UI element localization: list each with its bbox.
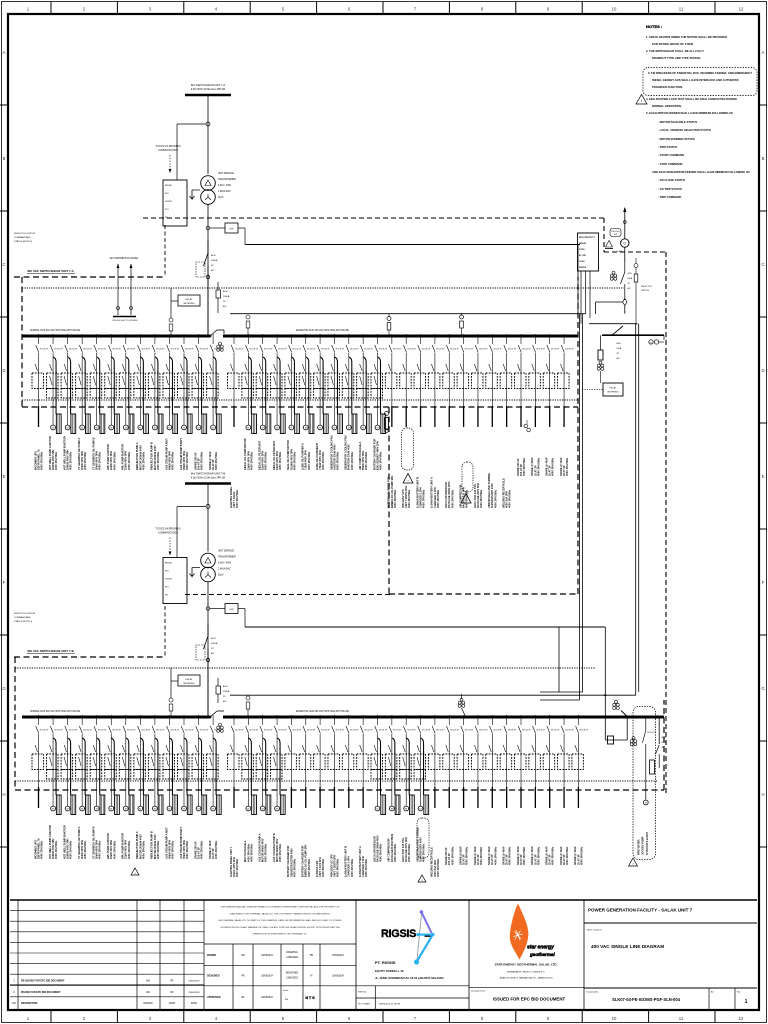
switchgear 7-B label [27, 649, 75, 654]
svg-text:MCCB 3P: MCCB 3P [264, 349, 273, 351]
feeder N2 MCCB upper normal bus [47, 334, 64, 434]
svg-text:M: M [405, 809, 407, 811]
svg-text:400V 3PH 50Hz: 400V 3PH 50Hz [508, 489, 512, 508]
svg-text:MCCB 3P: MCCB 3P [350, 349, 359, 351]
feeder E9 MCCB upper essential bus [342, 334, 359, 434]
PT fuse on essential incomer wire [387, 314, 391, 335]
svg-text:MCCB 3P: MCCB 3P [336, 730, 345, 732]
feeder N10 MCCB upper normal bus [163, 334, 180, 434]
bus1 right stub and transfer tie [589, 324, 664, 340]
feeder LE17 MCCB lower essential bus [457, 715, 474, 808]
svg-text:RELAY: RELAY [186, 678, 193, 681]
feeder LE22 label [530, 846, 540, 865]
svg-text:A/C: A/C [211, 269, 215, 272]
svg-text:400V 3PH 50Hz: 400V 3PH 50Hz [127, 840, 131, 859]
svg-text:MCCB 3P: MCCB 3P [278, 349, 287, 351]
svg-text:M: M [391, 809, 393, 811]
feeder E6 label [301, 443, 311, 470]
feeder N6 MCCB upper normal bus [105, 334, 122, 434]
svg-text:STATUS (NOTE 5): STATUS (NOTE 5) [14, 620, 33, 623]
svg-text:MCCB 3P: MCCB 3P [185, 730, 194, 732]
svg-text:400V 3PH 50Hz: 400V 3PH 50Hz [493, 489, 497, 508]
svg-text:COMMAND AND: COMMAND AND [14, 236, 31, 239]
feeder N5 label [92, 437, 102, 470]
svg-text:A: A [3, 50, 6, 55]
note triangle below lower labels 1 [131, 868, 139, 875]
svg-text:M: M [362, 428, 364, 430]
transformer protection relay box 7-B [163, 558, 187, 604]
svg-text:MCCB 3P: MCCB 3P [293, 730, 302, 732]
svg-text:1600A: 1600A [211, 642, 218, 645]
svg-text:PN: PN [310, 954, 314, 957]
svg-text:86T: 86T [165, 571, 169, 573]
svg-text:M: M [81, 428, 83, 430]
svg-text:TO DCS VIA PROFIBUS: TO DCS VIA PROFIBUS [155, 528, 181, 531]
svg-text:6kV SWITCHGEAR UNIT 7-A: 6kV SWITCHGEAR UNIT 7-A [191, 83, 226, 87]
svg-text:400V 3PH 50Hz: 400V 3PH 50Hz [170, 840, 174, 859]
feeder LN3 MCCB lower normal bus [61, 715, 78, 815]
feeder N1 label [33, 449, 43, 470]
feeder LE3 MCCB lower essential bus [256, 715, 273, 815]
bus tie breaker 7-B [209, 711, 224, 718]
svg-text:MCCB 3P: MCCB 3P [407, 349, 416, 351]
feeder LE24 MCCB lower essential bus [558, 715, 575, 808]
feeder LE20 MCCB lower essential bus [500, 715, 517, 808]
svg-text:RELAY: RELAY [165, 184, 173, 187]
fire water jockey pump feeder [629, 707, 657, 867]
svg-text:400V 3PH 50Hz: 400V 3PH 50Hz [479, 489, 483, 508]
svg-text:400V 3PH 50Hz: 400V 3PH 50Hz [422, 489, 426, 508]
svg-text:400V 3PH 50Hz: 400V 3PH 50Hz [565, 457, 569, 476]
svg-text:COMMAND AND: COMMAND AND [14, 616, 31, 619]
essential incomer wire upper [230, 245, 586, 314]
notes text block [636, 24, 757, 199]
EDG protection relay box [578, 233, 599, 271]
svg-text:10: 10 [612, 1016, 617, 1021]
svg-text:COMMUNICATION: COMMUNICATION [158, 532, 178, 535]
svg-text:400V 3PH 50Hz: 400V 3PH 50Hz [69, 451, 73, 470]
feeder E13 MCCB upper essential bus [400, 334, 417, 427]
svg-text:Sheet Contents: Sheet Contents [587, 929, 603, 932]
svg-text:A/C: A/C [223, 305, 227, 308]
svg-text:400 VAC SWITCHGEAR UNIT 7-A: 400 VAC SWITCHGEAR UNIT 7-A [27, 269, 75, 273]
svg-text:RIGSIS: RIGSIS [381, 928, 416, 940]
svg-text:4. EDG ROUTINE LOAD TEST SHALL: 4. EDG ROUTINE LOAD TEST SHALL BE ABLE C… [646, 97, 737, 101]
svg-text:400V 3PH 50Hz: 400V 3PH 50Hz [379, 451, 383, 470]
svg-text:MCCB 3P: MCCB 3P [98, 349, 107, 351]
svg-text:A/C: A/C [617, 357, 621, 360]
feeder LN10 label [164, 827, 174, 859]
svg-text:ACB: ACB [223, 290, 228, 293]
svg-text:DRAWING: DRAWING [286, 951, 298, 954]
feeder E21 MCCB upper essential bus [515, 334, 532, 427]
svg-text:D: D [2, 368, 5, 373]
feeder E7 label [315, 443, 325, 470]
feeder E22 MCCB upper essential bus [529, 334, 546, 427]
svg-text:M: M [262, 809, 264, 811]
feeder E2 MCCB upper essential bus [242, 334, 259, 434]
svg-text:H: H [2, 792, 5, 797]
svg-text:WISMA BARITO PACIFIC II LANTAI: WISMA BARITO PACIFIC II LANTAI 9 'D' [507, 971, 545, 974]
svg-text:MCCB 3P: MCCB 3P [156, 349, 165, 351]
svg-text:TO DCS VIA PROFIBUS: TO DCS VIA PROFIBUS [155, 145, 181, 148]
svg-text:Dyn5: Dyn5 [218, 575, 224, 577]
feeder N9 label [150, 442, 160, 470]
svg-text:ISSUED FOR EPC BID DOCUMENT: ISSUED FOR EPC BID DOCUMENT [493, 997, 566, 1002]
svg-text:400V 3PH 50Hz: 400V 3PH 50Hz [112, 840, 116, 859]
svg-text:PT. RIGSIS: PT. RIGSIS [375, 960, 396, 965]
dashed DCS communication line upper [143, 217, 604, 219]
essential feed wires right [624, 306, 626, 314]
svg-text:Dyn5: Dyn5 [218, 197, 224, 199]
svg-text:09/28/2024 10:13 PM: 09/28/2024 10:13 PM [379, 1004, 400, 1006]
feeder E20 MCCB upper essential bus [500, 334, 517, 427]
feeder LN9 MCCB lower normal bus [148, 715, 165, 815]
svg-text:M: M [247, 428, 249, 430]
svg-text:400V 3PH 50Hz: 400V 3PH 50Hz [83, 451, 87, 470]
svg-text:400V 3PH 50Hz: 400V 3PH 50Hz [335, 451, 339, 470]
feeder E12 label [387, 476, 397, 508]
svg-text:STATUS (NOTE 5): STATUS (NOTE 5) [14, 240, 33, 243]
svg-text:M: M [212, 809, 214, 811]
feeder LE6 label [301, 845, 311, 877]
feeder LE13 label [401, 837, 411, 862]
svg-text:SWITCH: SWITCH [641, 290, 649, 292]
svg-text:ACB: ACB [617, 342, 622, 345]
feeder LE19 label [487, 846, 497, 865]
svg-text:RELAY: RELAY [610, 387, 617, 390]
wire to transformer protection relay [177, 124, 206, 180]
svg-text:M: M [110, 428, 112, 430]
svg-text:MCCB 3P: MCCB 3P [307, 349, 316, 351]
svg-text:400V 3PH 50Hz: 400V 3PH 50Hz [141, 451, 145, 470]
svg-text:ESSENTIAL BUS 400 VAC 50Hz: ESSENTIAL BUS 400 VAC 50Hz 50kA 3PH 3W+P… [296, 710, 349, 713]
svg-text:400V 3PH 50Hz: 400V 3PH 50Hz [350, 858, 354, 877]
svg-text:M: M [110, 809, 112, 811]
svg-text:29/08/2024: 29/08/2024 [261, 976, 273, 978]
feeder LE12 label [387, 833, 397, 862]
dashed DCS communication line lower [185, 594, 391, 596]
svg-text:27/59: 27/59 [579, 249, 585, 251]
EDG relay wires down [581, 271, 590, 324]
feeder LE4 MCCB lower essential bus [271, 715, 288, 815]
feeder LE12 MCCB lower essential bus [385, 715, 402, 815]
feeder N1 MCCB upper normal bus [32, 334, 49, 427]
svg-text:3. TIE BREAKERS OF ESSENTIAL B: 3. TIE BREAKERS OF ESSENTIAL BUS, INCOMI… [648, 71, 752, 75]
svg-text:6.3kV / 400V: 6.3kV / 400V [218, 185, 232, 187]
feeder LE20 label [501, 846, 511, 865]
svg-text:M: M [67, 809, 69, 811]
dotted boundary bottom lower [15, 780, 658, 782]
svg-text:400V 3PH 50Hz: 400V 3PH 50Hz [493, 846, 497, 865]
svg-text:M: M [154, 809, 156, 811]
svg-text:400V 3PH 50Hz: 400V 3PH 50Hz [156, 451, 160, 470]
EDG drawout symbol [610, 271, 617, 280]
svg-text:MCCB 3P: MCCB 3P [508, 349, 517, 351]
svg-text:6.3kV 50Hz 31.5kA 2sec 3PH: 6.3kV 50Hz 31.5kA 2sec 3PH 3W [191, 477, 226, 480]
svg-text:C: C [2, 262, 5, 267]
svg-text:- MOTOR AVAILABLE STATUS: - MOTOR AVAILABLE STATUS [658, 120, 697, 124]
svg-text:A: A [762, 50, 765, 55]
svg-text:A/C: A/C [211, 652, 215, 655]
feeder N7 label [121, 444, 131, 470]
transformer protection relay box 7-A [163, 180, 187, 226]
EDG outgoing wire [621, 247, 625, 300]
feeder LE23 label [545, 846, 555, 865]
relay metering box upper [171, 288, 200, 318]
feeder LE2 label [243, 840, 253, 862]
feeder LE15 label [430, 847, 440, 877]
normal bus 7-A [22, 329, 210, 336]
feeder E23 label [545, 457, 555, 476]
svg-text:MCCB 3P: MCCB 3P [565, 730, 574, 732]
svg-text:MCCB 3P: MCCB 3P [142, 730, 151, 732]
svg-text:M: M [198, 809, 200, 811]
node on incoming wire lower [206, 607, 210, 611]
svg-text:400V 3PH 50Hz: 400V 3PH 50Hz [278, 451, 282, 470]
svg-text:400V 3PH 50Hz: 400V 3PH 50Hz [278, 843, 282, 862]
svg-text:M: M [377, 809, 379, 811]
node on incoming wire upper [206, 226, 210, 230]
svg-text:TRANSFER FUNCTION.: TRANSFER FUNCTION. [652, 85, 683, 89]
svg-text:MCCB 3P: MCCB 3P [565, 349, 574, 351]
feeder N5 MCCB upper normal bus [90, 334, 107, 434]
feeder LN12 label [193, 840, 203, 859]
svg-text:M: M [305, 428, 307, 430]
svg-text:400V 3PH 50Hz: 400V 3PH 50Hz [407, 489, 411, 508]
title block [10, 900, 757, 1009]
svg-text:RELAY: RELAY [186, 298, 193, 301]
feeder LE5 MCCB lower essential bus [285, 715, 302, 808]
svg-text:JOCKEY PUMP: JOCKEY PUMP [641, 836, 645, 855]
svg-text:NOTES :: NOTES : [646, 24, 662, 29]
svg-text:GEOTHERMAL SALAK LTD. NO PART: GEOTHERMAL SALAK LTD. NO PART OF THIS DR… [219, 919, 342, 922]
second ACB essential incomer lower [216, 678, 230, 703]
svg-text:400V 3PH 50Hz: 400V 3PH 50Hz [393, 489, 397, 508]
essential bus 7-B [223, 710, 664, 717]
feeder LE6 MCCB lower essential bus [299, 715, 316, 808]
feeder E5 MCCB upper essential bus [285, 334, 302, 434]
svg-text:- CB CLOSE STATUS: - CB CLOSE STATUS [658, 178, 685, 182]
svg-text:400V 3PH 50Hz: 400V 3PH 50Hz [536, 846, 540, 865]
feeder N13 MCCB upper normal bus [207, 334, 224, 434]
svg-text:400V 3PH 50Hz: 400V 3PH 50Hz [170, 451, 174, 470]
dotted control bus upper [22, 287, 578, 289]
svg-text:MCCB 3P: MCCB 3P [422, 349, 431, 351]
feeder N12 MCCB upper normal bus [192, 334, 209, 434]
svg-text:MCCB 3P: MCCB 3P [200, 349, 209, 351]
svg-text:NORMAL OPERATION.: NORMAL OPERATION. [652, 104, 682, 108]
svg-text:400V 3PH 50Hz: 400V 3PH 50Hz [407, 843, 411, 862]
svg-text:630A: 630A [662, 741, 667, 744]
svg-text:MCCB 3P: MCCB 3P [83, 730, 92, 732]
svg-text:MCCB 3P: MCCB 3P [293, 349, 302, 351]
feeder LE24 label [559, 846, 569, 865]
rounded outline spare label upper 2 [462, 462, 473, 492]
svg-text:400V 3PH 50Hz: 400V 3PH 50Hz [264, 843, 268, 862]
feeder LE14 label [415, 827, 425, 862]
svg-text:MCCB 3P: MCCB 3P [422, 730, 431, 732]
svg-text:DESCRIPTION: DESCRIPTION [21, 1002, 38, 1005]
feeder E16 MCCB upper essential bus [443, 334, 460, 427]
feeder E14 MCCB upper essential bus [414, 334, 431, 427]
svg-text:12: 12 [739, 7, 744, 12]
svg-text:87T: 87T [165, 587, 169, 589]
svg-text:kW: kW [614, 234, 617, 236]
svg-text:400V 3PH 50Hz: 400V 3PH 50Hz [156, 840, 160, 859]
svg-text:M: M [81, 809, 83, 811]
feeder LN3 label [62, 825, 72, 859]
feeder E4 label [272, 440, 282, 470]
svg-text:B: B [3, 156, 6, 161]
feeder LN1 MCCB lower normal bus [32, 715, 49, 808]
svg-text:50/51N: 50/51N [165, 201, 172, 203]
svg-text:MCCB 3P: MCCB 3P [407, 730, 416, 732]
svg-text:E: E [3, 474, 6, 479]
svg-text:400V 3PH 50Hz: 400V 3PH 50Hz [292, 451, 296, 470]
essential tie wires down right side [540, 314, 583, 700]
svg-text:RF: RF [170, 980, 174, 983]
feeder LE23 MCCB lower essential bus [543, 715, 560, 808]
svg-text:6.3kV 50Hz 31.5kA 2sec 3PH: 6.3kV 50Hz 31.5kA 2sec 3PH 3W [191, 88, 226, 91]
svg-text:11: 11 [679, 7, 684, 12]
feeder LN10 MCCB lower normal bus [163, 715, 180, 815]
svg-text:MCCB 3P: MCCB 3P [40, 349, 49, 351]
lower essential incoming breaker right [605, 324, 638, 744]
feeder LE21 MCCB lower essential bus [515, 715, 532, 808]
lower essential mid incomer ACB [458, 694, 465, 716]
second ACB essential incomer upper [216, 245, 245, 314]
svg-text:MCCB 3P: MCCB 3P [142, 349, 151, 351]
svg-text:M: M [52, 809, 54, 811]
PT fuse right upper [246, 315, 250, 336]
svg-text:400V 3PH 50Hz: 400V 3PH 50Hz [264, 451, 268, 470]
feeder LN13 label [208, 840, 218, 859]
svg-text:MCCB 3P: MCCB 3P [127, 730, 136, 732]
svg-text:- START COMMAND: - START COMMAND [658, 153, 684, 157]
svg-text:MCCB 3P: MCCB 3P [321, 349, 330, 351]
svg-text:DRAWOUT TYPE AND TYPE TESTED.: DRAWOUT TYPE AND TYPE TESTED. [652, 56, 701, 60]
svg-text:APPD: APPD [169, 1002, 176, 1005]
feeder LE25 label [573, 846, 583, 865]
svg-text:- TRIP COMMAND: - TRIP COMMAND [658, 195, 681, 199]
svg-text:1600A: 1600A [223, 295, 230, 298]
feeder LE10 label [358, 846, 368, 877]
svg-text:D: D [761, 368, 764, 373]
feeder E12 MCCB upper essential bus [385, 334, 402, 427]
feeder N3 label [62, 436, 72, 470]
incomer wire to essential side upper [245, 244, 580, 246]
svg-text:400V 3PH 50Hz: 400V 3PH 50Hz [127, 451, 131, 470]
feeder LE9 MCCB lower essential bus [342, 715, 359, 808]
feeder E6 MCCB upper essential bus [299, 334, 316, 434]
svg-text:400V 3PH 50Hz: 400V 3PH 50Hz [40, 451, 44, 470]
svg-text:400V 3PH 50Hz: 400V 3PH 50Hz [422, 843, 426, 862]
svg-text:M: M [645, 803, 647, 805]
svg-text:400V 3PH 50Hz: 400V 3PH 50Hz [98, 840, 102, 859]
feeder N11 MCCB upper normal bus [178, 334, 195, 434]
feeder E17 label [458, 484, 468, 508]
svg-text:400V 3PH 50Hz: 400V 3PH 50Hz [40, 840, 44, 859]
svg-text:MCCB 3P: MCCB 3P [647, 732, 656, 734]
svg-text:MCCB 3P: MCCB 3P [54, 730, 63, 732]
feeder N10 label [164, 438, 174, 470]
emergency diesel genset G [605, 207, 629, 253]
wire transformer to switchgear [207, 204, 209, 336]
svg-text:RE-ISSUED FOR EPC BID DOCUMENT: RE-ISSUED FOR EPC BID DOCUMENT [21, 980, 65, 983]
svg-text:400V 3PH 50Hz: 400V 3PH 50Hz [235, 489, 239, 508]
feeder E7 MCCB upper essential bus [314, 334, 331, 434]
svg-text:- MOTOR RUNNING STATUS: - MOTOR RUNNING STATUS [658, 137, 695, 141]
incoming feeder wire from 6kV bus [206, 484, 210, 552]
svg-text:METERING: METERING [184, 683, 195, 685]
feeder LN4 label [77, 826, 87, 859]
svg-text:400V 3PH 50Hz: 400V 3PH 50Hz [321, 858, 325, 877]
dotted boundary bottom upper [22, 399, 578, 401]
feeder LN12 MCCB lower normal bus [192, 715, 209, 815]
svg-text:400V 3PH 50Hz: 400V 3PH 50Hz [522, 846, 526, 865]
feeder LE13 MCCB lower essential bus [400, 715, 417, 815]
svg-text:400V 3PH 50Hz: 400V 3PH 50Hz [364, 858, 368, 877]
svg-text:6.3kV / 400V: 6.3kV / 400V [218, 563, 232, 565]
svg-text:MCCB 3P: MCCB 3P [171, 730, 180, 732]
svg-text:E: E [762, 474, 765, 479]
svg-text:2. THE SWITCHGEAR SHALL BE ALL: 2. THE SWITCHGEAR SHALL BE ALL FULLY [646, 49, 704, 53]
svg-text:MCCB 3P: MCCB 3P [321, 730, 330, 732]
feeder N4 label [77, 437, 87, 470]
svg-text:ACB: ACB [628, 272, 633, 275]
svg-text:MCCB 3P: MCCB 3P [450, 349, 459, 351]
feeder E17 MCCB upper essential bus [457, 334, 474, 427]
PT fuse right lower [246, 696, 250, 717]
svg-text:MCCB 3P: MCCB 3P [450, 730, 459, 732]
feeder E10 label [358, 441, 368, 470]
svg-text:DESIGNED: DESIGNED [286, 972, 299, 975]
svg-text:M: M [247, 809, 249, 811]
feeder LE14 MCCB lower essential bus [414, 715, 431, 815]
label from T/G DCS lower [14, 613, 36, 623]
svg-text:M: M [183, 428, 185, 430]
feeder LN8 label [135, 831, 145, 859]
svg-text:COMMUNICATION: COMMUNICATION [158, 149, 178, 152]
svg-text:ACB: ACB [223, 685, 228, 688]
EDG ACB label [628, 272, 633, 290]
feeder E24 label [559, 457, 569, 476]
feeder E2 label [243, 438, 253, 470]
svg-text:400 VAC SWITCHGEAR UNIT 7-B: 400 VAC SWITCHGEAR UNIT 7-B [27, 649, 75, 653]
svg-text:ACB: ACB [662, 736, 667, 739]
PT fuse left lower [169, 698, 173, 717]
svg-text:MCCB 3P: MCCB 3P [364, 349, 373, 351]
svg-text:Scale: Scale [283, 990, 289, 992]
feeder E13 label [401, 486, 411, 508]
svg-text:400V 3PH 50Hz: 400V 3PH 50Hz [350, 451, 354, 470]
svg-text:- STOP COMMAND: - STOP COMMAND [658, 162, 683, 166]
svg-text:DRAWN: DRAWN [144, 1002, 153, 1005]
svg-text:DESIGNED: DESIGNED [207, 975, 220, 978]
svg-text:FIRE WATER: FIRE WATER [637, 839, 641, 855]
svg-text:MCCB 3P: MCCB 3P [98, 730, 107, 732]
svg-text:SELECTOR: SELECTOR [641, 286, 652, 288]
svg-text:400V 3PH 50Hz: 400V 3PH 50Hz [436, 858, 440, 877]
svg-text:A/C: A/C [223, 700, 227, 703]
svg-text:RF: RF [170, 991, 174, 994]
svg-text:SLK07-04-FE-IGOMS-PGF-SLN-004: SLK07-04-FE-IGOMS-PGF-SLN-004 [612, 997, 681, 1002]
selector switch fuse [634, 258, 652, 325]
svg-text:MCCB 3P: MCCB 3P [508, 730, 517, 732]
svg-text:STAR ENERGY GEOTHERMAL SALAK,: STAR ENERGY GEOTHERMAL SALAK, LTD. [495, 963, 558, 967]
feeder LN13 MCCB lower normal bus [207, 715, 224, 815]
